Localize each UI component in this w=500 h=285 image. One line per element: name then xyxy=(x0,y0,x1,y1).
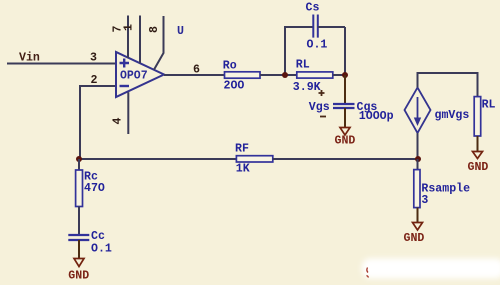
svg-text:1K: 1K xyxy=(236,163,250,176)
wire node D to Rsample xyxy=(417,159,419,170)
wire Vin input to pin 3 xyxy=(7,63,116,65)
svg-text:O.1: O.1 xyxy=(91,242,112,255)
wire op-amp output pin 6 xyxy=(164,74,225,76)
wire Cgs to ground xyxy=(344,108,346,127)
op-amp plus input symbol xyxy=(120,59,130,68)
svg-text:Ro: Ro xyxy=(223,60,237,73)
resistor RF xyxy=(236,156,272,162)
node C junction dot (feedback left) xyxy=(76,156,82,162)
wire feedback RF left xyxy=(79,158,236,160)
current source gmVgs diamond xyxy=(405,88,431,134)
node D junction dot xyxy=(415,156,421,162)
wire pin 2 horizontal xyxy=(80,85,116,87)
resistor RL (3.9K) xyxy=(297,72,333,78)
svg-text:1: 1 xyxy=(123,24,136,31)
wire node C to Rc xyxy=(78,159,80,170)
wire gmVgs top to RL right xyxy=(418,73,478,97)
resistor Rc xyxy=(76,170,83,207)
wire node B down to Cgs xyxy=(344,75,346,104)
svg-text:O.1: O.1 xyxy=(307,38,328,51)
svg-text:Vin: Vin xyxy=(19,52,40,65)
pin 7 wire (top) xyxy=(127,16,129,59)
capacitor Cs xyxy=(313,15,318,38)
pin 4 wire (bottom) xyxy=(127,92,129,134)
svg-text:RL: RL xyxy=(296,59,310,72)
wire pin 2 vertical down to feedback node xyxy=(79,85,81,159)
wire Rsample to ground xyxy=(417,208,419,222)
svg-text:4: 4 xyxy=(112,117,125,124)
svg-text:Vgs: Vgs xyxy=(309,101,330,114)
svg-text:gmVgs: gmVgs xyxy=(435,109,470,122)
label Vgs plus sign xyxy=(319,90,325,96)
wire Cs top left xyxy=(284,26,313,28)
svg-text:6: 6 xyxy=(193,64,200,77)
svg-text:Rsample: Rsample xyxy=(421,183,470,196)
pin 1 wire (top) xyxy=(139,16,141,64)
node B junction dot xyxy=(342,72,348,78)
svg-text:RF: RF xyxy=(235,143,249,156)
wire Rc to Cc xyxy=(78,207,80,236)
pin 8 wire (top, bent) xyxy=(154,16,164,70)
wire Cc to ground xyxy=(78,240,80,258)
op-amp minus input symbol xyxy=(120,85,130,87)
svg-text:3.9K: 3.9K xyxy=(293,81,321,94)
svg-text:2: 2 xyxy=(91,74,98,87)
capacitor Cgs xyxy=(333,104,355,108)
svg-text:3: 3 xyxy=(90,52,97,65)
svg-text:2OO: 2OO xyxy=(224,80,245,93)
wire RL to node B xyxy=(333,74,345,76)
watermark white blob bottom right xyxy=(362,259,500,279)
svg-text:8: 8 xyxy=(148,26,161,33)
svg-text:GND: GND xyxy=(468,161,489,174)
svg-text:GND: GND xyxy=(68,270,89,283)
svg-text:OPO7: OPO7 xyxy=(120,70,148,83)
wire gmVgs bottom to node D xyxy=(417,133,419,159)
resistor RL (right) xyxy=(474,97,481,136)
ground arrow (Cc) xyxy=(74,259,84,267)
svg-text:47O: 47O xyxy=(84,182,105,195)
wire feedback RF right xyxy=(273,158,418,160)
svg-text:3: 3 xyxy=(421,194,428,207)
wire Cs top right xyxy=(318,26,345,28)
wire Cs loop left vertical xyxy=(284,27,286,75)
watermark red mark xyxy=(367,268,369,278)
svg-text:U: U xyxy=(177,25,184,38)
wire RL right to ground xyxy=(477,136,479,151)
ground arrow (Cgs) xyxy=(340,128,350,136)
op-amp U1 OP07 triangle xyxy=(116,52,164,97)
node A junction dot xyxy=(282,72,288,78)
current source arrow xyxy=(417,97,419,119)
resistor Rsample xyxy=(414,170,420,208)
svg-text:RL: RL xyxy=(482,99,496,112)
ground arrow (RL right) xyxy=(473,152,483,159)
ground arrow (Rsample) xyxy=(413,223,423,231)
svg-text:1OOOp: 1OOOp xyxy=(359,110,394,123)
svg-text:GND: GND xyxy=(404,232,425,245)
capacitor Cc xyxy=(68,235,89,240)
svg-text:Cs: Cs xyxy=(306,2,320,15)
svg-text:GND: GND xyxy=(335,135,356,148)
wire Cs loop right vertical xyxy=(344,27,346,75)
wire node A to RL xyxy=(285,74,297,76)
svg-text:Cc: Cc xyxy=(91,230,105,243)
resistor Ro xyxy=(225,72,261,78)
label Vgs minus sign xyxy=(320,116,326,118)
wire Ro to node A xyxy=(260,74,285,76)
